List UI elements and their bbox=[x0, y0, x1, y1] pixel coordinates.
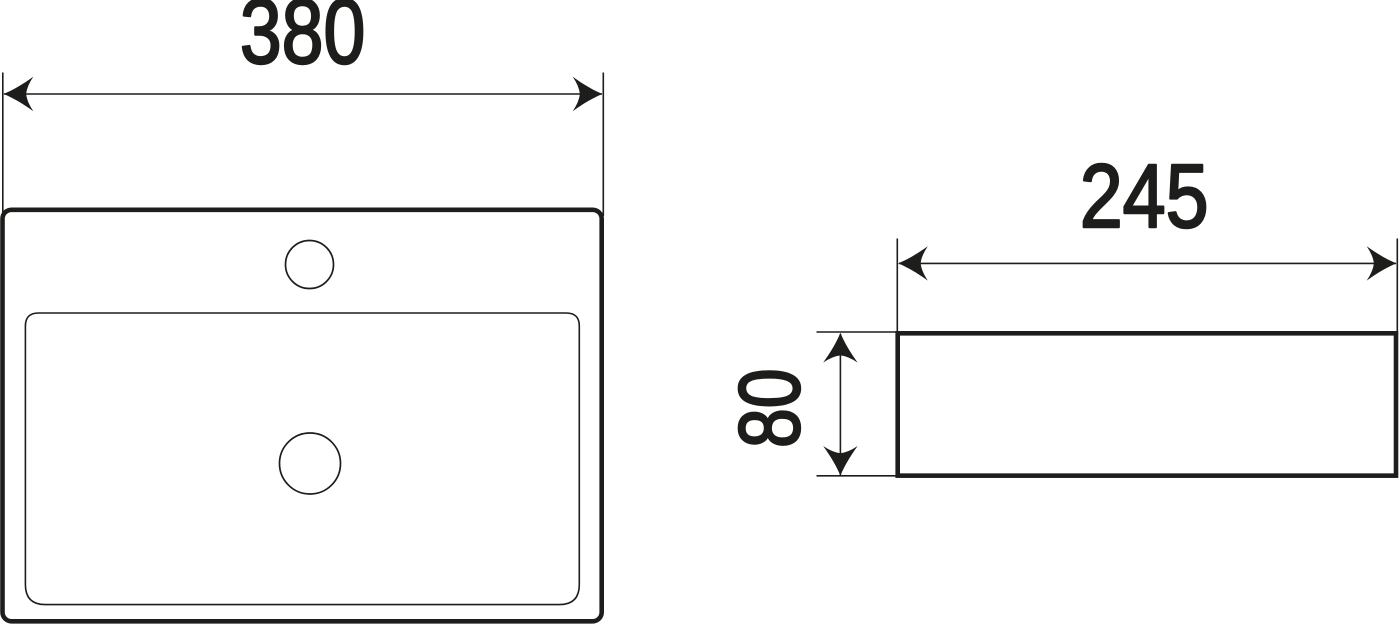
dim 380: left extension line bbox=[2, 73, 4, 217]
dim 245: right extension line bbox=[1396, 239, 1398, 335]
basin top view: outer rim outline bbox=[3, 210, 602, 622]
svg-text:245: 245 bbox=[1080, 147, 1209, 247]
dim 245: left arrowhead bbox=[898, 246, 928, 280]
dim 245: left extension line bbox=[896, 239, 898, 335]
drain hole circle bbox=[280, 433, 341, 494]
dim 245: dimension line bbox=[899, 262, 1396, 264]
dim 380: left arrowhead bbox=[4, 77, 34, 111]
dim 80: top arrowhead bbox=[823, 333, 857, 363]
dim 80: top extension line bbox=[817, 331, 898, 333]
svg-text:380: 380 bbox=[240, 0, 366, 83]
dim 380: right arrowhead bbox=[573, 77, 603, 111]
svg-text:80: 80 bbox=[722, 368, 818, 448]
faucet hole circle bbox=[286, 241, 334, 289]
dim 245: right arrowhead bbox=[1367, 246, 1397, 280]
dim 380: right extension line bbox=[602, 73, 604, 217]
dim 80: bottom arrowhead bbox=[823, 446, 857, 476]
dim 80: dimension line bbox=[839, 334, 841, 475]
dim 380: dimension line bbox=[4, 93, 602, 95]
dim 80: bottom extension line bbox=[817, 475, 898, 477]
basin top view: inner bowl outline bbox=[25, 313, 579, 605]
side view rectangle bbox=[898, 333, 1396, 475]
